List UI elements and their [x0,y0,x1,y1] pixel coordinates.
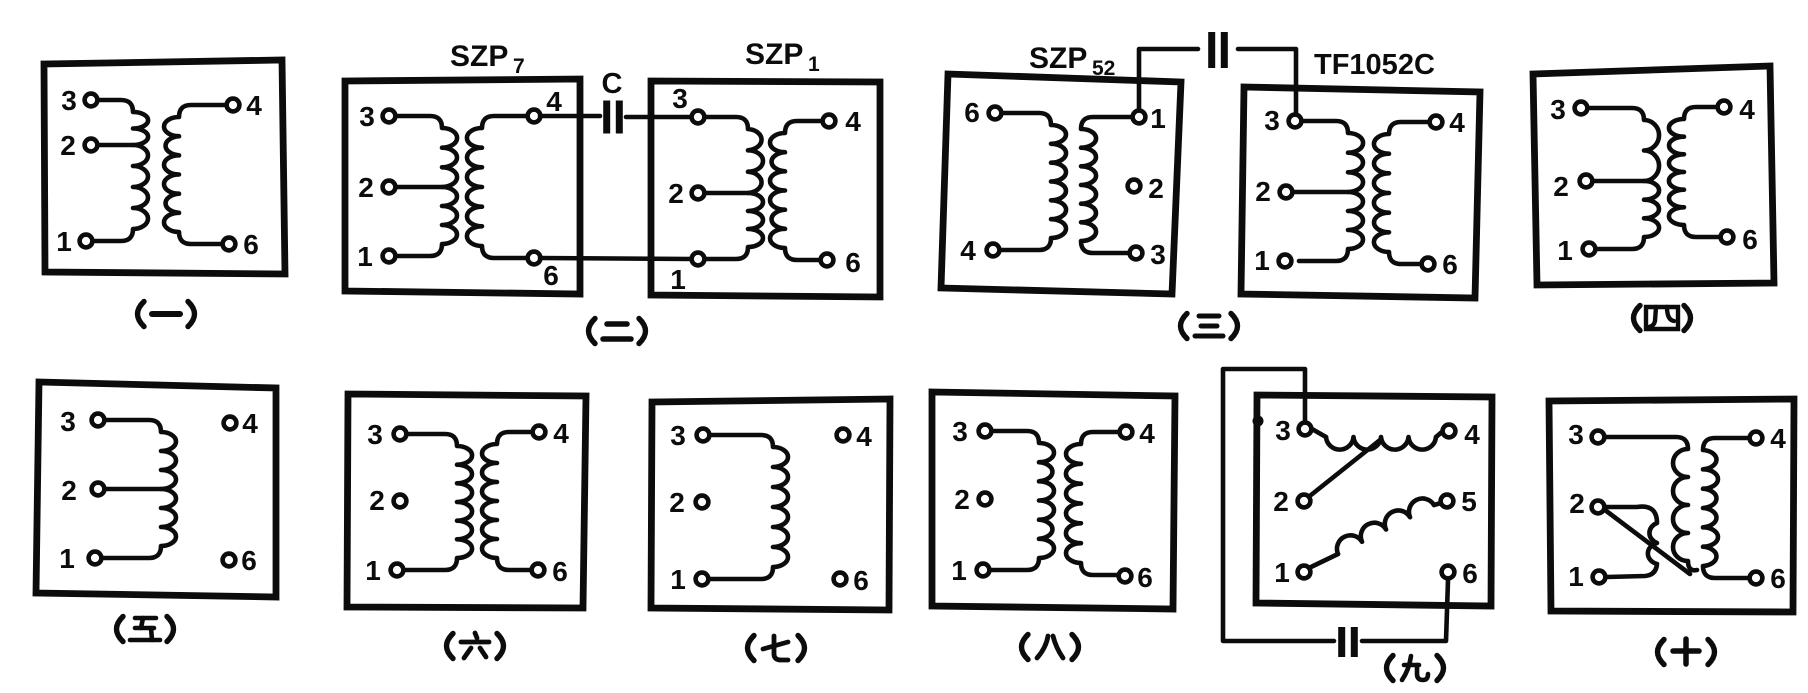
svg-text:6: 6 [241,545,257,576]
T1 primary winding (pins 3-2-1) [95,100,148,241]
TF1052C pin 1 label [1254,245,1270,276]
T1 pin 6 label [243,229,259,260]
figure label (1) [138,302,195,327]
svg-text:2: 2 [61,475,77,506]
T5 pin 4 label [242,408,258,439]
svg-text:1: 1 [1568,561,1584,592]
T10 pin 2 [1592,501,1605,514]
svg-text:4: 4 [546,86,562,117]
transformer SZP52 label [1029,42,1115,80]
SZP52 pin 3 label [1150,239,1166,270]
svg-text:4: 4 [1464,419,1480,450]
SZP7 secondary winding (pins 4-6) [467,116,530,258]
figure label (3) [1181,314,1238,339]
svg-text:4: 4 [246,90,262,121]
T1 pin 4 [227,99,240,112]
svg-text:3: 3 [670,420,686,451]
svg-text:3: 3 [1275,415,1291,446]
svg-text:2: 2 [369,485,385,516]
T7 pin 3 label [670,420,686,451]
svg-text:2: 2 [358,172,374,203]
T10 pin 6 label [1770,563,1786,594]
transformer SZP1 outline [651,81,880,297]
SZP52 winding (pins 1-3) [1081,117,1133,253]
SZP1 pin 1 label [670,264,686,295]
svg-text:1: 1 [59,543,75,574]
SZP7 pin 4 label [546,86,562,117]
svg-text:TF1052C: TF1052C [1314,49,1435,81]
transformer TF1052C label [1314,49,1435,81]
transformer T8 outline [932,392,1175,609]
transformer TF1052C outline [1241,87,1480,298]
svg-text:1: 1 [365,555,381,586]
svg-text:3: 3 [1550,94,1566,125]
T6 pin 1 [391,564,404,577]
SZP7 pin 2 [383,181,396,194]
svg-text:4: 4 [1139,418,1155,449]
T10 pin 4 [1750,432,1763,445]
svg-text:4: 4 [1449,107,1465,138]
SZP52 pin 1 [1133,111,1146,124]
svg-text:4: 4 [1739,94,1755,125]
SZP52 pin 6 [989,107,1002,120]
SZP7 primary winding (pins 3-2-1) [393,116,457,256]
svg-text:1: 1 [1274,557,1290,588]
T5 pin 3 label [60,406,76,437]
TF1052C pin 4 [1430,116,1443,129]
svg-text:3: 3 [672,83,688,114]
SZP52 pin 2 [1128,180,1141,193]
svg-text:4: 4 [553,418,569,449]
wire capacitor around left and top to T9 pin3 [1223,369,1334,641]
wire T9 pin6 down to capacitor [1362,580,1448,641]
T6 primary winding (pins 3-1) [404,434,472,570]
svg-text:6: 6 [543,260,559,291]
svg-text:3: 3 [359,101,375,132]
SZP7 pin 6 [528,252,541,265]
svg-text:2: 2 [1553,171,1569,202]
svg-text:C: C [602,68,623,100]
transformer T6 outline [347,394,586,608]
coupling capacitor (fig 3) [1208,32,1228,68]
SZP1 secondary winding (pins 4-6) [770,121,825,260]
svg-text:6: 6 [1462,558,1478,589]
svg-text:2: 2 [1569,488,1585,519]
T10 pin 4 label [1770,423,1786,454]
T7 pin 2 label [669,487,685,518]
T9 winding 1-5 (diagonal) [1311,499,1441,567]
svg-text:1: 1 [357,241,373,272]
T6 pin 3 [394,428,407,441]
figure label (7) [748,636,805,661]
TF1052C pin 3 label [1264,105,1280,136]
T10 diagonal wire from pin 2 to main coil bottom [1605,510,1690,574]
T1 pin 1 [80,235,93,248]
SZP1 pin 1 [692,253,705,266]
svg-text:3: 3 [61,85,77,116]
SZP7 pin 1 label [357,241,373,272]
T7 pin 3 [697,429,710,442]
svg-text:3: 3 [1264,105,1280,136]
T9 pin 2 label [1273,486,1289,517]
svg-text:1: 1 [808,53,820,76]
SZP1 pin 2 label [668,178,684,209]
SZP52 pin 2 label [1148,173,1164,204]
T8 pin 4 label [1139,418,1155,449]
T8 secondary winding (pins 4-6) [1066,432,1121,575]
capacitor C label [602,68,623,100]
T8 pin 6 label [1137,562,1153,593]
T5 pin 1 [89,552,102,565]
capacitor C [603,101,623,134]
T9 pin 6 [1442,566,1455,579]
T4 pin 6 [1721,231,1734,244]
TF1052C pin 1 [1279,255,1292,268]
transformer SZP1 label [745,38,820,76]
T8 pin 2 (open) [979,493,992,506]
SZP52 pin 6 label [964,97,980,128]
svg-text:6: 6 [845,247,861,278]
T9 winding 3-4 (horizontal) [1312,429,1443,450]
T8 pin 6 [1119,570,1132,583]
svg-text:6: 6 [853,565,869,596]
TF1052C pin 2 label [1255,176,1271,207]
transformer T5 outline [36,382,276,597]
T6 pin 1 label [365,555,381,586]
T4 pin 1 [1583,243,1596,256]
svg-text:1: 1 [56,226,72,257]
svg-text:2: 2 [1255,176,1271,207]
SZP7 pin 4 [528,110,541,123]
figure label (10) [1658,639,1715,665]
SZP1 pin 6 label [845,247,861,278]
svg-text:3: 3 [60,406,76,437]
transformer T7 outline [651,399,890,610]
SZP52 pin 3 [1130,247,1143,260]
wire SZP52 pin1 up over to capacitor [1139,49,1198,110]
svg-text:1: 1 [1254,245,1270,276]
T10 winding 3 to tap (main coil) [1606,437,1697,570]
T1 pin 3 [85,94,98,107]
T5 winding (pins 3-2-1) [102,420,176,558]
figure label (9) [1387,656,1444,681]
T4 primary winding (pins 3-2-1) [1585,108,1659,249]
T9 pin 2 [1298,495,1311,508]
T4 pin 3 label [1550,94,1566,125]
SZP1 pin 4 [823,115,836,128]
T4 pin 6 label [1742,224,1758,255]
T7 pin 6 label [853,565,869,596]
T7 pin 4 (open) [837,429,850,442]
svg-text:6: 6 [552,556,568,587]
T10 pin 3 label [1568,419,1584,450]
T6 pin 6 label [552,556,568,587]
T6 secondary winding (pins 4-6) [482,432,534,570]
SZP7 pin 3 [383,110,396,123]
svg-text:2: 2 [1273,486,1289,517]
TF1052C secondary winding (pins 4-6) [1374,122,1432,264]
SZP7 pin 2 label [358,172,374,203]
T4 pin 4 label [1739,94,1755,125]
T9 pin 1 label [1274,557,1290,588]
TF1052C primary winding (pins 3-2-1) [1290,121,1363,261]
T9 pin 6 label [1462,558,1478,589]
T4 pin 2 [1580,175,1593,188]
T5 pin 1 label [59,543,75,574]
T6 pin 4 [533,426,546,439]
T10 pin 2 label [1569,488,1585,519]
svg-text:6: 6 [243,229,259,260]
T9 pin 4 [1443,425,1456,438]
SZP52 winding (pins 6-4) [999,113,1066,250]
svg-text:2: 2 [668,178,684,209]
T10 pin 6 [1750,572,1763,585]
T4 pin 3 [1575,102,1588,115]
T6 pin 4 label [553,418,569,449]
figure label (4) [1634,306,1691,331]
T8 pin 1 [977,564,990,577]
svg-text:3: 3 [1568,419,1584,450]
figure label (2) [589,319,646,344]
T9 pin 5 label [1461,486,1477,517]
transformer T10 outline [1549,399,1794,612]
T9 pin 3 label [1275,415,1291,446]
SZP1 pin 6 [821,254,834,267]
TF1052C pin 6 label [1442,249,1458,280]
svg-text:1: 1 [670,564,686,595]
SZP1 pin 4 label [845,106,861,137]
svg-text:1: 1 [1150,103,1166,134]
T1 pin 6 [223,238,236,251]
SZP1 pin 2 [692,187,705,200]
T1 pin 2 label [60,130,76,161]
svg-text:1: 1 [951,555,967,586]
figure label (6) [447,633,504,659]
svg-text:SZP: SZP [450,40,508,73]
figure label (8) [1022,635,1079,660]
T10 pin 1 label [1568,561,1584,592]
svg-text:3: 3 [952,416,968,447]
T6 pin 2 label [369,485,385,516]
TF1052C pin 6 [1422,258,1435,271]
junction dot on T9 left edge [1253,416,1264,427]
T8 pin 3 label [952,416,968,447]
SZP1 primary winding (pins 3-2-1) [702,117,763,259]
T10 winding 2-1 (small coil) [1606,507,1657,577]
svg-text:4: 4 [856,421,872,452]
svg-text:SZP: SZP [745,38,803,71]
svg-text:5: 5 [1461,486,1477,517]
T4 pin 2 label [1553,171,1569,202]
T6 pin 6 [532,564,545,577]
T8 primary winding (pins 3-1) [989,431,1054,570]
capacitor (fig 9) [1338,627,1358,657]
svg-text:2: 2 [1148,173,1164,204]
T7 winding (pins 3-1) [707,435,788,579]
T4 pin 4 [1718,101,1731,114]
SZP52 pin 4 [987,244,1000,257]
transformer T9 outline [1256,395,1492,606]
SZP52 pin 1 label [1150,103,1166,134]
TF1052C pin 4 label [1449,107,1465,138]
wire SZP7 pin6 to SZP1 pin1 [540,258,692,259]
transformer SZP7 label [450,40,525,78]
transformer T1 outline [44,60,285,274]
svg-text:1: 1 [1557,235,1573,266]
transformer SZP52 outline [941,74,1181,294]
wire SZP7 pin4 to capacitor C [540,114,600,119]
T7 pin 1 label [670,564,686,595]
T1 pin 4 label [246,90,262,121]
SZP7 pin 6 label [543,260,559,291]
SZP1 pin 3 label [672,83,688,114]
T8 pin 3 [979,425,992,438]
T5 pin 2 [92,483,105,496]
T1 pin 2 [85,139,98,152]
T8 pin 1 label [951,555,967,586]
svg-text:6: 6 [1742,224,1758,255]
svg-text:7: 7 [513,55,525,78]
T9 pin 5 [1441,495,1454,508]
T5 pin 6 label [241,545,257,576]
T5 pin 3 [92,414,105,427]
svg-text:4: 4 [960,235,976,266]
T4 secondary winding (pins 4-6) [1669,107,1720,237]
T9 pin 3 [1299,423,1312,436]
svg-text:2: 2 [954,484,970,515]
T9 pin 4 label [1464,419,1480,450]
T10 pin 1 [1593,571,1606,584]
wire capacitor to TF1052C pin3 [1238,49,1296,114]
T8 pin 4 [1120,426,1133,439]
svg-text:6: 6 [1442,249,1458,280]
transformer SZP7 outline [345,79,580,294]
SZP7 pin 1 [383,250,396,263]
svg-text:4: 4 [1770,423,1786,454]
svg-text:3: 3 [1150,239,1166,270]
T10 pin 3 [1592,431,1605,444]
T6 pin 3 label [367,419,383,450]
svg-text:6: 6 [1137,562,1153,593]
T1 secondary winding (pins 4-6) [164,105,228,244]
SZP1 pin 3 [692,111,705,124]
T8 pin 2 label [954,484,970,515]
svg-text:4: 4 [845,106,861,137]
wire capacitor C to SZP1 pin3 [626,115,692,120]
svg-text:3: 3 [367,419,383,450]
SZP7 pin 3 label [359,101,375,132]
T5 pin 6 (open) [223,554,236,567]
T7 pin 2 (open) [696,496,709,509]
T6 pin 2 (open) [394,495,407,508]
T7 pin 6 (open) [834,573,847,586]
T9 tap wire from pin 2 to winding 3-4 [1311,440,1380,495]
T5 pin 2 label [61,475,77,506]
T4 pin 1 label [1557,235,1573,266]
T7 pin 4 label [856,421,872,452]
svg-text:2: 2 [669,487,685,518]
T1 pin 1 label [56,226,72,257]
transformer T4 outline [1533,66,1774,285]
T1 pin 3 label [61,85,77,116]
svg-text:6: 6 [1770,563,1786,594]
svg-text:4: 4 [242,408,258,439]
TF1052C pin 3 [1289,115,1302,128]
T7 pin 1 [696,573,709,586]
svg-text:2: 2 [60,130,76,161]
figure label (5) [117,617,174,642]
SZP52 pin 4 label [960,235,976,266]
T10 secondary winding (pins 4-6) [1703,438,1748,578]
svg-text:1: 1 [670,264,686,295]
T5 pin 4 (open) [224,417,237,430]
TF1052C pin 2 [1280,186,1293,199]
svg-text:6: 6 [964,97,980,128]
T9 pin 1 [1298,566,1311,579]
svg-text:SZP: SZP [1029,42,1087,75]
